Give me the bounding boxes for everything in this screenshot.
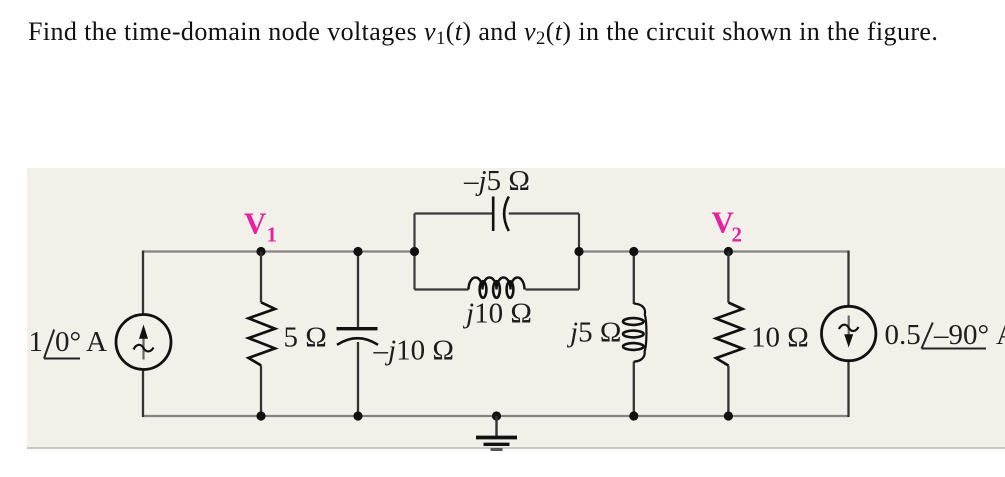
inductor j10 horizontal — [462, 278, 532, 330]
label V2 — [712, 205, 743, 247]
svg-text:1: 1 — [29, 326, 44, 358]
resistor R 10ohm — [716, 252, 809, 417]
svg-text:2: 2 — [732, 223, 743, 247]
dot R5 bottom — [256, 411, 265, 420]
inductor j5 vertical — [566, 252, 646, 417]
wire top-left segment — [143, 250, 415, 252]
label 1 angle 0 A — [29, 326, 108, 359]
svg-text:1: 1 — [267, 223, 278, 247]
dot parallel right — [574, 247, 583, 256]
svg-text:j10 Ω: j10 Ω — [462, 298, 532, 330]
svg-text:–j10 Ω: –j10 Ω — [373, 335, 454, 367]
node V1 dot top — [256, 247, 265, 256]
wire bottom segment — [142, 415, 850, 417]
dot cap top — [353, 247, 362, 256]
dot j5 top — [629, 247, 638, 256]
capacitor -j5 — [463, 165, 530, 231]
node V2 dot — [724, 247, 733, 256]
svg-text:–j5 Ω: –j5 Ω — [463, 165, 530, 197]
label V1 — [244, 206, 277, 247]
current source I1 — [116, 315, 171, 370]
dot parallel left — [410, 247, 419, 256]
label 0.5 angle -90 A — [885, 319, 1005, 351]
svg-text:0°: 0° — [55, 326, 81, 358]
svg-text:V: V — [244, 206, 267, 241]
dot cap bottom — [353, 411, 362, 420]
wire top-right segment — [579, 250, 849, 252]
wire right branch — [847, 251, 849, 418]
current source I2 — [822, 306, 876, 360]
ground — [476, 411, 517, 449]
capacitor -j10 — [337, 252, 454, 417]
dot j5 bottom — [629, 411, 638, 420]
parallel block frame — [415, 214, 580, 290]
wire left branch — [142, 251, 144, 418]
svg-text:–90°: –90° — [933, 319, 989, 351]
svg-text:A: A — [86, 326, 107, 358]
svg-text:5 Ω: 5 Ω — [284, 322, 327, 354]
svg-text:A: A — [996, 319, 1005, 351]
svg-text:0.5: 0.5 — [885, 319, 921, 351]
svg-text:10 Ω: 10 Ω — [751, 322, 809, 354]
resistor R 5ohm — [249, 252, 327, 417]
dot R10 bottom — [724, 411, 733, 420]
svg-text:j5 Ω: j5 Ω — [566, 317, 621, 349]
